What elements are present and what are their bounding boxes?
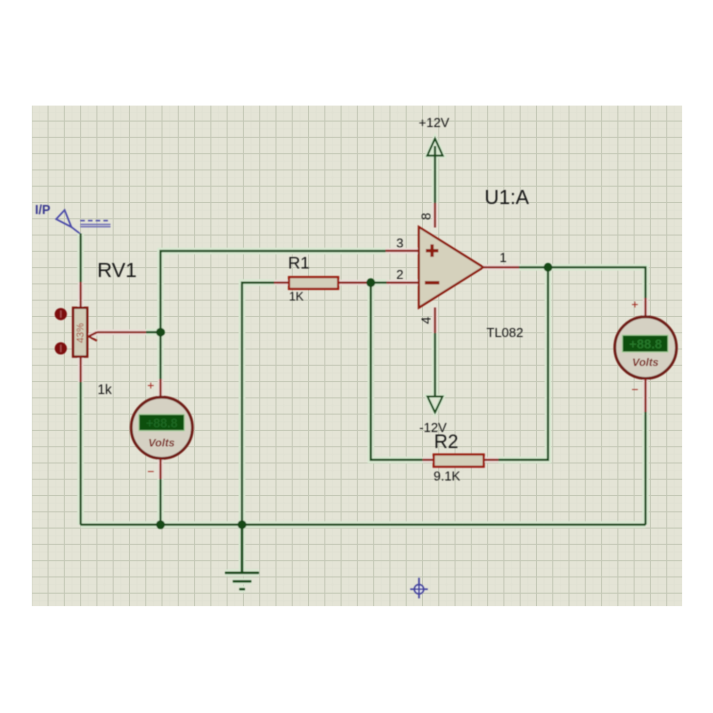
junction: PM1 at ground bus: [156, 520, 165, 529]
junction node C: [544, 263, 553, 272]
op-amp U1:A: [419, 203, 519, 333]
wire: +12V to pin 8: [434, 146, 436, 203]
svg-text:1k: 1k: [98, 382, 113, 397]
wire: R2 right up to output node C: [498, 267, 548, 460]
svg-text:TL082: TL082: [487, 325, 524, 340]
ground symbol: [225, 525, 259, 590]
svg-text:-12V: -12V: [419, 420, 447, 435]
wire: node B to op-amp pin 2: [371, 282, 387, 284]
input terminal I/P: [56, 210, 110, 233]
svg-text:Volts: Volts: [632, 357, 659, 369]
svg-text:RV1: RV1: [97, 259, 137, 282]
wire: PM2 minus down to ground bus: [644, 378, 646, 524]
wire: RV1 wiper to node A: [146, 331, 161, 333]
svg-text:U1:A: U1:A: [485, 187, 530, 209]
svg-text:1: 1: [500, 250, 507, 265]
svg-text:Volts: Volts: [148, 437, 175, 449]
origin marker: [410, 578, 428, 599]
wire: ground bus riser up to R1 left: [242, 283, 274, 525]
svg-text:2: 2: [396, 267, 403, 282]
resistor R1: [274, 277, 371, 289]
wire: pin 4 to -12V: [434, 333, 436, 397]
junction node B: [366, 278, 375, 287]
op-amp pin 2 stub: [387, 282, 420, 284]
svg-text:+88.8: +88.8: [146, 416, 178, 430]
wire: node A down to voltmeter PM1 plus: [159, 332, 161, 397]
wire: node B down to R2 left: [371, 283, 423, 460]
junction: ground stem at bus: [238, 520, 247, 529]
svg-text:R1: R1: [288, 254, 310, 273]
voltmeter PM1: [131, 397, 192, 458]
+12V power terminal: [419, 115, 450, 156]
ground bus wire: [81, 523, 646, 525]
svg-text:−: −: [631, 383, 638, 397]
-12V power terminal: [419, 397, 447, 436]
svg-text:+12V: +12V: [419, 115, 450, 130]
op-amp pin 3 stub: [386, 250, 420, 252]
wire: node A up and right to op-amp pin 3: [161, 251, 386, 332]
potentiometer RV1: [55, 308, 146, 382]
resistor R2: [423, 455, 499, 467]
svg-text:1K: 1K: [289, 289, 304, 303]
svg-text:4: 4: [419, 317, 434, 324]
voltmeter PM2: [615, 317, 677, 379]
svg-text:9.1K: 9.1K: [434, 469, 461, 484]
svg-text:3: 3: [396, 236, 403, 251]
svg-text:+: +: [631, 298, 638, 312]
wire: PM1 minus down to ground bus: [159, 458, 161, 524]
junction node A: [156, 328, 165, 337]
svg-text:43%: 43%: [76, 323, 87, 343]
wire: output pin 1 to node C and on to PM2: [519, 267, 646, 298]
wire: input terminal down to RV1 top: [79, 234, 81, 309]
svg-text:+: +: [147, 379, 154, 393]
PM2 top stub: [644, 298, 646, 317]
wire: RV1 bottom down to ground bus: [79, 382, 81, 525]
svg-text:+88.8: +88.8: [629, 337, 662, 352]
svg-text:8: 8: [419, 213, 434, 220]
svg-text:I/P: I/P: [35, 203, 50, 217]
svg-text:−: −: [147, 465, 154, 479]
